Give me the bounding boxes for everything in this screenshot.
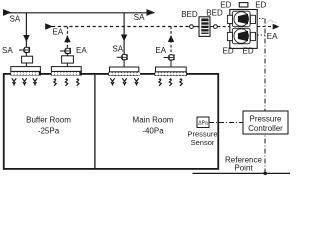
svg-text:EA: EA bbox=[53, 28, 64, 37]
svg-text:EA: EA bbox=[76, 46, 87, 55]
svg-text:SA: SA bbox=[134, 13, 145, 22]
svg-text:Sensor: Sensor bbox=[191, 138, 215, 147]
svg-text:ED: ED bbox=[220, 0, 231, 9]
svg-text:EA: EA bbox=[267, 32, 278, 41]
svg-text:SA: SA bbox=[10, 15, 21, 24]
svg-text:SA: SA bbox=[112, 44, 123, 53]
svg-text:EA: EA bbox=[155, 46, 166, 55]
svg-text:ΔPa: ΔPa bbox=[198, 120, 208, 126]
svg-text:ED: ED bbox=[255, 0, 266, 9]
svg-text:Pressure: Pressure bbox=[249, 115, 282, 124]
svg-text:-40Pa: -40Pa bbox=[142, 126, 164, 135]
svg-text:Point: Point bbox=[234, 164, 253, 173]
svg-text:Buffer Room: Buffer Room bbox=[26, 115, 71, 124]
svg-text:Controller: Controller bbox=[248, 124, 283, 133]
svg-text:Main Room: Main Room bbox=[133, 115, 174, 124]
svg-text:BED: BED bbox=[206, 8, 223, 17]
svg-text:ED: ED bbox=[243, 47, 254, 56]
svg-text:BED: BED bbox=[181, 10, 198, 19]
svg-text:SA: SA bbox=[2, 46, 13, 55]
svg-text:ED: ED bbox=[223, 47, 234, 56]
svg-text:-25Pa: -25Pa bbox=[38, 126, 60, 135]
